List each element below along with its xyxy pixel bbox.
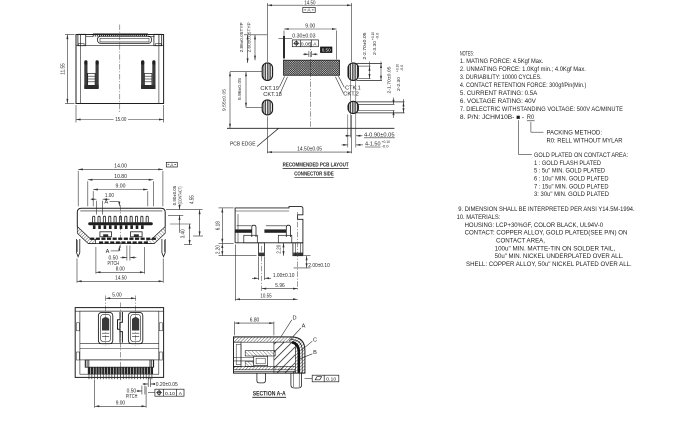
- svg-text:0.10: 0.10: [165, 391, 175, 397]
- svg-text:-0.0: -0.0: [382, 144, 389, 148]
- svg-text:9.55±0.05: 9.55±0.05: [221, 89, 226, 111]
- svg-text:A: A: [106, 249, 110, 255]
- svg-text:C: C: [313, 337, 317, 343]
- dimension 2.20 side left: [219, 255, 257, 257]
- front view contact bar: [88, 222, 153, 225]
- svg-text:5.00: 5.00: [112, 293, 121, 299]
- lower right pad tail rectangle: [357, 101, 405, 103]
- rear view right shell tab: [154, 34, 162, 45]
- svg-text:5 : 5u" MIN. GOLD PLATED: 5 : 5u" MIN. GOLD PLATED: [534, 168, 605, 175]
- svg-text:B: B: [313, 350, 317, 356]
- svg-text:6.18: 6.18: [215, 221, 221, 230]
- svg-text:10. MATERIALS:: 10. MATERIALS:: [457, 214, 501, 221]
- svg-text:R0: RELL WITHOUT MYLAR: R0: RELL WITHOUT MYLAR: [547, 137, 623, 144]
- dimension 0.50 pitch front: [126, 246, 128, 261]
- bottom view pin comb: [88, 367, 153, 374]
- post centerline right: [135, 296, 137, 346]
- svg-text:CKT.2: CKT.2: [343, 91, 359, 97]
- svg-text:9. DIMENSION SHALL BE INTERPRE: 9. DIMENSION SHALL BE INTERPRETED PER AN…: [458, 206, 634, 213]
- svg-text:15.00: 15.00: [115, 117, 126, 123]
- pcb edge line: [227, 127, 394, 129]
- bottom view wall notches: [76, 323, 79, 331]
- callout line to plating code: [517, 120, 519, 154]
- svg-text:9.00: 9.00: [305, 23, 315, 29]
- side view body outline: [235, 207, 303, 243]
- svg-text:11.55: 11.55: [60, 63, 66, 75]
- dimension 5.96 pcb: [230, 71, 262, 73]
- section A-A middle hatch bar: [245, 351, 275, 356]
- svg-text:+0.10: +0.10: [371, 32, 375, 40]
- pad lower right: [348, 101, 358, 113]
- svg-text:4-0.90±0.05: 4-0.90±0.05: [364, 132, 395, 138]
- svg-text:6. VOLTAGE RATING: 40V: 6. VOLTAGE RATING: 40V: [460, 98, 537, 105]
- svg-text:+0.10: +0.10: [395, 64, 399, 72]
- highlight box 0.50 pcb: [320, 47, 332, 53]
- dimension 14.50 pcb bottom: [266, 117, 268, 154]
- rear view centerline: [119, 25, 121, 113]
- bottom view solder bar: [85, 360, 154, 367]
- upper right pad tail rectangle: [357, 62, 383, 64]
- svg-text:0.30±0.03: 0.30±0.03: [292, 34, 315, 40]
- svg-text:0.06: 0.06: [301, 42, 311, 48]
- svg-text:2-2.70±0.05: 2-2.70±0.05: [362, 32, 367, 59]
- svg-text:3.40: 3.40: [180, 229, 186, 238]
- bottom view center S-slot: [118, 312, 121, 343]
- svg-text:PITCH: PITCH: [126, 394, 138, 400]
- svg-text:2.20: 2.20: [215, 245, 221, 254]
- section A-A bottom middle foot: [257, 373, 266, 383]
- bottom view inner horizontal lines: [80, 343, 159, 345]
- svg-text:10.80: 10.80: [114, 174, 127, 180]
- side view left contact foot: [235, 229, 252, 232]
- svg-text:SHELL: COPPER ALLOY, 50u" NICK: SHELL: COPPER ALLOY, 50u" NICKEL PLATED …: [466, 261, 632, 268]
- svg-text:0.10: 0.10: [326, 377, 336, 383]
- dimension 2-1.70: [393, 98, 395, 105]
- dimension 2.60 typ: [254, 35, 256, 60]
- svg-text:A: A: [104, 200, 108, 206]
- dimension 0.90 contact right: [166, 209, 203, 211]
- dimension 10.55 side: [234, 245, 236, 301]
- section A-A body outline: [234, 337, 305, 373]
- rear view top contact comb: [93, 34, 146, 37]
- rear view right mounting leg: [141, 62, 144, 88]
- svg-text:CONTACT AREA,: CONTACT AREA,: [496, 238, 545, 245]
- true position frame bottom view: [148, 392, 155, 394]
- dimension 2.86 typ: [244, 34, 267, 36]
- dimension 9.00 pcb: [283, 31, 285, 60]
- svg-text:4-1.50: 4-1.50: [365, 142, 381, 148]
- svg-text:7. DIELECTRIC WITHSTANDING VOL: 7. DIELECTRIC WITHSTANDING VOLTAGE: 500V…: [460, 106, 623, 113]
- svg-text:D: D: [292, 315, 296, 321]
- dimension 1.00 front: [95, 201, 97, 215]
- leader CKT.19: [279, 76, 284, 87]
- dimension 6.80 section: [234, 322, 236, 336]
- section A-A left cap details: [234, 342, 242, 367]
- svg-text:CKT.18: CKT.18: [263, 92, 282, 98]
- pcb pad band hatched: [284, 60, 340, 75]
- svg-text:2.86±0.05TYP: 2.86±0.05TYP: [239, 22, 244, 52]
- front view right through-hole leg: [162, 239, 165, 257]
- svg-text:RECOMMENDED PCB LAYOUT: RECOMMENDED PCB LAYOUT: [283, 163, 350, 169]
- datum -A- front view: [166, 162, 177, 167]
- pad upper right: [348, 63, 358, 81]
- svg-text:2.60±0.05TYP: 2.60±0.05TYP: [247, 22, 252, 52]
- dimension 11.55: [65, 34, 75, 36]
- section A-A inner shell wall line: [291, 340, 302, 374]
- svg-text:14.00: 14.00: [114, 164, 127, 170]
- dimension 10.80: [87, 181, 89, 206]
- svg-text:10.55: 10.55: [260, 294, 271, 300]
- pcb edge cut diagonal: [257, 128, 279, 146]
- pcb layout centerline: [309, 42, 311, 127]
- dimension 2.00 side right: [304, 255, 311, 257]
- dimension 15.00: [75, 105, 77, 123]
- svg-text:2. UNMATING FORCE: 1.0Kgf min.: 2. UNMATING FORCE: 1.0Kgf min.; 4.0Kgf M…: [460, 66, 586, 73]
- pad lower left: [262, 100, 272, 115]
- svg-text:14.50±0.05: 14.50±0.05: [297, 147, 322, 153]
- front view shell outline: [77, 208, 165, 226]
- section A-A small hatch piece: [245, 362, 254, 367]
- dimension 14.50 front: [76, 259, 78, 283]
- svg-text:14.50: 14.50: [304, 0, 315, 6]
- dimension 2.20 side inner: [283, 243, 285, 256]
- svg-text:(CONTACT): (CONTACT): [178, 186, 183, 204]
- svg-text:14.50: 14.50: [115, 275, 126, 281]
- svg-text:6 : 10u" MIN. GOLD PLATED: 6 : 10u" MIN. GOLD PLATED: [534, 176, 609, 183]
- svg-text:5.96: 5.96: [275, 283, 284, 289]
- dimension 9.00 front: [92, 191, 94, 206]
- rear view contact wafer bar: [98, 36, 152, 43]
- svg-text:PACKING METHOD:: PACKING METHOD:: [547, 129, 603, 136]
- leader CTK.1: [338, 76, 344, 87]
- section A-A left tail lines: [234, 357, 254, 359]
- leader CKT.2: [335, 77, 343, 93]
- svg-text:8. P/N: JCHM10B-: 8. P/N: JCHM10B-: [460, 114, 514, 121]
- svg-text:0.50: 0.50: [322, 48, 331, 54]
- svg-text:HOUSING: LCP+30%GF, COLOR BLAC: HOUSING: LCP+30%GF, COLOR BLACK, UL94V-0: [465, 222, 604, 229]
- svg-text:1.00±0.10: 1.00±0.10: [273, 273, 295, 279]
- svg-text:3: 30u" MIN. GOLD PLATED: 3: 30u" MIN. GOLD PLATED: [534, 191, 609, 198]
- side view right leg: [293, 243, 303, 256]
- front view center key blocks: [100, 232, 112, 237]
- svg-text:9.00: 9.00: [116, 401, 125, 407]
- bottom view left post: [98, 312, 112, 343]
- front view left bent tab hatched: [77, 227, 95, 244]
- hole extension lines lower right pad: [350, 73, 352, 138]
- svg-text:A: A: [302, 324, 306, 330]
- svg-text:5.96±0.05: 5.96±0.05: [237, 78, 242, 100]
- pad upper left: [262, 63, 272, 81]
- pitch ticks 0.50 pcb: [308, 51, 310, 57]
- svg-text:PCB EDGE: PCB EDGE: [230, 141, 256, 147]
- dimension 4-1.50: [342, 144, 348, 146]
- rear view left shell tab: [78, 34, 86, 45]
- svg-text:5. CURRENT RATING: 0.5A: 5. CURRENT RATING: 0.5A: [460, 90, 538, 97]
- bottom view body outline: [75, 308, 163, 378]
- svg-text:-0.0: -0.0: [400, 65, 404, 72]
- svg-text:R0: R0: [527, 114, 535, 121]
- svg-text:8.00: 8.00: [116, 267, 125, 273]
- dimension 2-3.30: [380, 62, 382, 81]
- callout line to R0: [530, 122, 532, 132]
- svg-text:NOTES:: NOTES:: [460, 50, 474, 57]
- svg-text:-: -: [522, 114, 525, 121]
- svg-text:CONTACT: COPPER ALLOY, GOLD PL: CONTACT: COPPER ALLOY, GOLD PLATED(SEE P…: [465, 230, 628, 237]
- dimension 2-2.30: [403, 99, 405, 113]
- section A-A top hatch band: [234, 337, 305, 373]
- front view bottom dashed band: [90, 238, 156, 244]
- svg-text:7 : 15u" MIN. GOLD PLATED: 7 : 15u" MIN. GOLD PLATED: [534, 183, 609, 190]
- dimension 9.00 bottom: [94, 380, 96, 408]
- side view right contact foot: [264, 229, 286, 232]
- front view right bent tab hatched: [147, 227, 165, 244]
- svg-text:3. DURIABILITY: 10000 CYCLES.: 3. DURIABILITY: 10000 CYCLES.: [460, 74, 542, 81]
- datum -A- pcb: [303, 7, 315, 12]
- svg-text:4.55: 4.55: [190, 195, 196, 204]
- dimension 0.20 bottom: [147, 377, 149, 387]
- front view left through-hole leg: [77, 239, 80, 257]
- svg-text:2-3.30: 2-3.30: [372, 41, 377, 55]
- dimension 1.00 side: [258, 257, 260, 281]
- dimension 2-2.70: [369, 62, 371, 79]
- dimension 0.50 pitch bottom: [141, 386, 143, 395]
- post centerline left: [105, 296, 107, 346]
- dimension 6.18 side: [219, 207, 234, 209]
- section A-A bottom hatch band: [234, 366, 296, 369]
- section A-A right hatch block: [274, 342, 295, 373]
- flatness frame section: [305, 377, 313, 379]
- bottom view right post: [128, 312, 142, 343]
- leader CKT.18: [280, 77, 287, 93]
- svg-text:2.00±0.10: 2.00±0.10: [308, 263, 330, 269]
- svg-text:-0.0: -0.0: [376, 33, 380, 40]
- dimension 8.00: [95, 247, 97, 274]
- svg-text:2.20: 2.20: [277, 245, 283, 254]
- svg-text:1 : GOLD FLASH PLATED: 1 : GOLD FLASH PLATED: [534, 160, 601, 167]
- true position frame pcb: [292, 40, 318, 47]
- svg-text:1.00: 1.00: [105, 193, 114, 199]
- svg-text:2-2.30: 2-2.30: [396, 77, 401, 91]
- svg-text:6.80: 6.80: [250, 317, 259, 323]
- section A-A black contact strip: [292, 342, 299, 372]
- svg-text:100u" MIN. MATTE-TIN ON SOLDE: 100u" MIN. MATTE-TIN ON SOLDER TAIL,: [495, 245, 616, 252]
- rear view shell outline: [76, 35, 164, 104]
- dimension 4-0.90: [345, 135, 350, 137]
- svg-text:CONNECTOR SIDE: CONNECTOR SIDE: [294, 171, 334, 177]
- svg-text:0.20±0.05: 0.20±0.05: [156, 382, 178, 388]
- svg-text:4. CONTACT RETENTION FORCE: 30: 4. CONTACT RETENTION FORCE: 300gf/Pin(Mi…: [460, 82, 587, 89]
- side view left leg: [259, 243, 265, 256]
- dimension 5.00: [106, 297, 136, 299]
- section A-A middle contact box: [254, 356, 268, 365]
- rear view left mounting leg: [84, 62, 87, 88]
- svg-text:1. MATING FORCE: 4.5Kgf Max.: 1. MATING FORCE: 4.5Kgf Max.: [460, 58, 544, 65]
- bottom view centerline: [119, 303, 121, 382]
- dimension 14.50 pcb top: [266, 3, 268, 62]
- pad row thick edge mark: [283, 36, 285, 58]
- dimension 9.55 pcb: [229, 72, 231, 129]
- svg-text:GOLD PLATED ON CONTACT AREA:: GOLD PLATED ON CONTACT AREA:: [534, 152, 628, 159]
- svg-text:SECTION A-A: SECTION A-A: [253, 390, 286, 397]
- svg-text:2-1.70±0.05: 2-1.70±0.05: [386, 66, 391, 93]
- dimension 14.00: [77, 171, 79, 206]
- svg-text:9.00: 9.00: [116, 184, 126, 190]
- svg-text:50u" MIN. NICKEL UNDERPLATED O: 50u" MIN. NICKEL UNDERPLATED OVER ALL.: [495, 253, 624, 260]
- section A-A right foot: [291, 373, 302, 388]
- front view centerline: [120, 205, 122, 248]
- dimension 5.96 side: [262, 288, 298, 290]
- front view contact teeth row: [93, 216, 149, 222]
